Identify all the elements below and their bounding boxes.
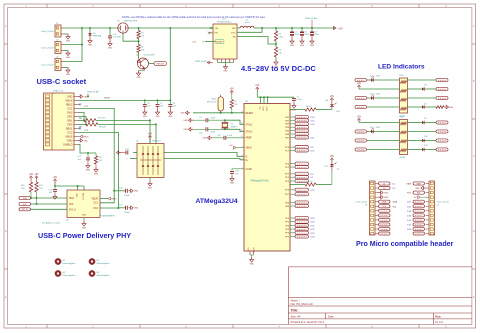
svg-text:GND: GND [300,45,305,47]
svg-text:FUSB302BMPX: FUSB302BMPX [100,215,116,217]
title ATMega32U4 [196,198,238,205]
connector J6 [355,181,378,235]
svg-text:CC1: CC1 [93,202,98,205]
net label row y134 [290,132,309,135]
svg-text:GND: GND [143,116,148,118]
svg-text:GND: GND [384,197,389,199]
ground U2 left [116,151,121,155]
no-connect SBU1 [78,127,81,129]
svg-text:VBUS: VBUS [111,199,117,201]
svg-text:4: 4 [242,158,243,160]
svg-text:GND: GND [134,191,139,193]
svg-text:6: 6 [242,167,243,169]
svg-text:GND: GND [66,74,71,76]
svg-text:SDA: SDA [393,201,398,204]
svg-text:SCL: SCL [69,203,74,206]
svg-text:SMF28A: SMF28A [93,35,102,38]
svg-text:VBUS: VBUS [246,148,253,150]
J6 row2 D0 [379,187,397,191]
U3 sleep wire [192,41,215,44]
svg-text:GND: GND [134,208,139,210]
label row1 left [355,78,371,81]
diode D10 [408,136,449,142]
svg-text:AREF: AREF [246,136,253,139]
svg-text:RESET: RESET [246,113,254,115]
node PWR_EN label [154,62,167,66]
label row3 left [355,96,371,99]
svg-text:GND: GND [88,44,93,46]
wire J2 pin1 to bus [64,44,82,46]
ground RN1 row4 [444,105,454,109]
net label row y218 [290,216,315,220]
wire input rail [82,27,213,29]
label SCL [19,202,31,205]
J6 row9 label [379,218,391,221]
svg-text:GND: GND [108,47,113,49]
svg-text:+5V: +5V [357,116,362,118]
svg-text:+5V: +5V [338,28,343,31]
net label row y137.4 [290,136,315,140]
net label row y147.1 [290,146,314,150]
vertical input bus [81,27,83,62]
label row3 right [408,96,449,99]
resistor R3 [274,28,284,44]
svg-text:D1: D1 [383,183,385,185]
svg-text:7: 7 [242,146,243,148]
label INT [19,208,31,211]
PWR_FLAG J5 [87,91,99,98]
ground R4 [274,60,279,68]
resistor R11 [21,174,34,198]
svg-text:1M: 1M [99,160,102,162]
ground C2 [300,39,305,47]
svg-text:XTAL2: XTAL2 [246,131,254,134]
svg-text:GND: GND [449,107,454,109]
svg-text:EN: EN [215,33,218,35]
svg-text:UVCC: UVCC [263,105,265,111]
capacitor C15 [48,185,57,194]
svg-text:+5V: +5V [34,174,39,176]
ESD array U2 [136,141,164,178]
J7 row2 GND [415,186,425,190]
svg-text:22uF: 22uF [304,34,309,36]
svg-text:KiCad E.D.A. kicad (5.1.5)-3: KiCad E.D.A. kicad (5.1.5)-3 [291,320,325,324]
svg-text:220pF: 220pF [124,212,130,214]
J7 row1 RAW [406,182,424,186]
svg-text:10k: 10k [39,188,42,190]
svg-text:Conn_01x12: Conn_01x12 [355,202,368,204]
title USB-C Power Delivery PHY [38,231,131,240]
transistor Q2 [136,55,155,70]
svg-text:GND: GND [155,116,160,118]
J6 row1 D1 [379,182,397,186]
svg-text:UCAP: UCAP [246,168,253,171]
PWR_FLAG output [305,17,317,28]
svg-text:10uH: 10uH [245,22,250,24]
svg-text:MountingHole: MountingHole [97,262,111,265]
label row4 left [355,105,400,108]
svg-text:DP2: DP2 [67,123,73,127]
svg-text:SCL: SCL [23,204,27,206]
title Pro Micro compatible header [356,240,454,248]
svg-text:10k: 10k [21,188,24,190]
svg-text:+5V: +5V [229,145,233,147]
svg-text:Conn_01x02: Conn_01x02 [41,31,54,33]
ground C17 [129,206,139,210]
svg-text:UGND: UGND [254,247,256,253]
capacitor C10 [193,127,225,134]
svg-text:NOTE: use 20V/5A e-marked cabl: NOTE: use 20V/5A e-marked cable for the … [122,15,266,19]
svg-text:PWR_EN: PWR_EN [156,63,164,65]
resistor R5 [230,88,238,112]
svg-text:File: PD_Micro.sch: File: PD_Micro.sch [291,302,314,306]
transistor Q1 [117,21,138,34]
svg-text:USB-C Power Delivery PHY: USB-C Power Delivery PHY [38,231,131,240]
svg-text:GND: GND [274,66,279,68]
svg-text:VOS: VOS [231,32,236,34]
U1 RX wire [290,109,305,111]
switch SW1 [207,95,224,113]
svg-text:GND: GND [183,129,188,131]
resistor R8 [78,123,106,129]
U1 ground [250,257,255,265]
vertical wire x170 rail to VBUS rail [169,28,171,100]
wire VBUS rail [78,98,171,102]
LED RX [325,100,340,113]
svg-text:16MHz: 16MHz [231,126,237,128]
ground C9 [183,118,193,122]
svg-text:SBU2: SBU2 [66,103,73,107]
svg-text:R7 22R: R7 22R [98,118,105,120]
diode D4 [408,104,445,109]
J7 row11 D16 [407,227,425,231]
connector J2 [41,39,64,53]
svg-text:Id: 1/1: Id: 1/1 [435,320,443,324]
mounting hole H1 [55,258,76,265]
svg-text:AVCC: AVCC [266,105,269,110]
wire U2 to D- long [164,153,244,157]
ground C5 [292,103,297,111]
net label row y150.4 [290,149,315,153]
svg-text:SDA: SDA [69,197,74,200]
svg-text:CC1: CC1 [67,107,73,111]
net label row y173.8 [290,172,314,176]
wire CC2 to PHY [78,130,119,209]
net label row y189.8 [290,188,315,192]
svg-text:GND: GND [230,182,235,184]
J5 GND arrow pin2 [78,139,88,143]
svg-text:DN2: DN2 [67,111,73,115]
U4 ground [82,218,87,230]
svg-text:220pF: 220pF [124,195,130,197]
ground C6 [143,110,148,118]
title USB-C socket [37,77,87,86]
wire U4 SDA [30,197,67,199]
svg-text:VDD: VDD [77,193,79,198]
svg-text:LED: LED [376,94,380,96]
svg-text:+5V: +5V [148,133,153,135]
svg-text:RX: RX [337,111,341,113]
J6 row6 SCL [379,205,398,209]
ground C8 [168,110,173,118]
svg-text:VCONN: VCONN [83,193,85,200]
svg-text:GND: GND [94,173,99,175]
wire Q1 gate [123,33,140,42]
svg-text:+5V: +5V [357,83,362,85]
capacitor C3 [310,28,320,39]
net label row y202.5 [290,201,309,204]
net label row y123.8 [290,122,315,126]
title 4.5~28V to 5V DC-DC [241,64,316,73]
svg-text:USB3.1 J5: USB3.1 J5 [53,91,64,93]
net label row y177.2 [290,176,314,180]
title block frame [288,267,472,325]
net label row y229.1 [290,228,315,232]
svg-text:DMP3017SFK: DMP3017SFK [124,21,138,23]
svg-text:GND: GND [415,188,420,190]
svg-text:GND: GND [66,40,71,42]
wire XTAL1 [225,120,244,124]
wire U4 INT [31,208,68,210]
ground C10 [183,128,193,132]
LED TX [324,162,339,185]
U2 +5V [148,133,153,143]
ground C4 [108,41,113,49]
J6 row3 GND [379,191,389,195]
label RN2 row4 left [355,148,400,151]
wire DN2 pair [78,112,85,121]
svg-text:Conn_01x02: Conn_01x02 [41,65,54,67]
U1 bottom GND pins [248,247,256,257]
wire DP1 pair [78,116,87,125]
svg-text:CC2: CC2 [93,207,98,210]
svg-text:+5V: +5V [330,156,335,158]
note text [122,15,266,19]
ground C13 [230,176,235,184]
wire DP to ESD [98,123,157,143]
net label row y221.7 [290,220,315,224]
resistor network RN2 [400,117,408,159]
net label row y127.2 [290,126,309,129]
resistor R10 [305,181,332,186]
J6 row10 label [379,223,391,226]
svg-text:4.5~28V to 5V DC-DC: 4.5~28V to 5V DC-DC [241,64,316,73]
resistor R4 [274,44,283,60]
svg-text:16: 16 [241,130,243,132]
svg-text:LED: LED [376,127,380,129]
svg-text:22pF: 22pF [211,118,216,120]
resistor R1 [137,28,145,41]
svg-text:VBUS: VBUS [104,98,110,100]
J6 row8 label [379,214,391,217]
J7 row3 RST [407,191,425,195]
net label row y194.2 [290,193,309,196]
wire DN to ESD [96,119,151,143]
connector J7 [426,181,450,235]
svg-text:VBUS: VBUS [65,99,72,103]
svg-text:0.1uF: 0.1uF [297,99,303,101]
inductor L1 [237,20,257,29]
svg-text:+5V: +5V [230,88,235,90]
ground C7 [155,110,160,118]
LED D8 [370,127,400,133]
title LED Indicators [378,63,425,70]
svg-text:GND: GND [82,215,87,217]
diode D9 [408,118,449,124]
J7 row12 label [413,232,425,235]
svg-text:SW_Push: SW_Push [207,102,217,104]
J7 row4 VCC [413,196,426,200]
svg-text:+5V: +5V [330,96,335,98]
+5V output arrow [333,26,342,30]
svg-text:GND: GND [136,77,141,79]
crystal Y1 [221,119,236,130]
J7 row9 D15 [407,218,425,222]
resistor R7 [78,118,105,123]
svg-text:0.1uF: 0.1uF [227,135,233,137]
U3 ground [223,63,228,73]
U1 +5V top [255,85,260,91]
U3 pin names [215,28,237,43]
svg-text:GND: GND [67,95,73,99]
J6 row7 label [379,209,391,212]
wire U4 VBUS [100,197,117,201]
svg-text:R10 1k: R10 1k [306,181,312,183]
wire U3 EN stub [208,32,213,34]
net label row y225.4 [290,224,315,228]
svg-text:GND: GND [67,139,73,143]
capacitor C5 [268,97,302,104]
svg-text:PWR_FLAG: PWR_FLAG [87,91,99,94]
net label row y163.7 [290,162,309,165]
net label row y120.4 [290,119,315,123]
net label row y117 [290,115,315,119]
J6 row4 GND [379,195,389,199]
svg-text:LED: LED [376,76,380,78]
svg-text:13: 13 [241,111,243,113]
svg-text:VBUS: VBUS [91,198,98,201]
svg-text:+5V: +5V [53,177,58,179]
U1 top power pins [257,91,268,111]
wire Q2 collector [149,63,155,65]
wire XTAL2 [225,129,244,131]
svg-text:17: 17 [241,123,243,125]
svg-text:VBUS: VBUS [65,135,72,139]
+5V RN1 row2 [357,83,362,89]
capacitor C17 [118,205,130,214]
capacitor C16 [114,188,130,197]
U2 ground [148,178,153,190]
svg-text:1uF 50V: 1uF 50V [113,37,121,39]
TX +5V [330,156,335,162]
svg-text:GND: GND [83,140,88,142]
diode D5 [88,28,101,38]
J5 GND arrow pin1 [78,95,88,99]
capacitor C4 [108,28,121,41]
resistor network RN1 [400,75,408,117]
resistor R9 [94,153,102,167]
J6 row11 label [379,227,391,230]
ground J2 pin2 [64,51,71,59]
U4 I2C note [42,222,61,225]
svg-text:GND: GND [82,227,87,229]
J7 row6 D20 [407,205,425,209]
svg-text:Date:: Date: [328,315,335,319]
label row1 right [408,78,449,81]
svg-text:USB-C socket: USB-C socket [37,77,87,86]
svg-text:Size: A4: Size: A4 [291,315,301,319]
svg-text:VIN: VIN [215,28,219,30]
capacitor C12 [77,153,90,163]
J6 row5 SDA [379,200,398,204]
mounting hole H2 [89,258,110,265]
wire U3 FB [237,37,277,45]
svg-text:R6 1k: R6 1k [306,106,311,108]
label RN2 row2 right [408,130,449,133]
svg-text:TPS54231DDC: TPS54231DDC [216,21,231,23]
wire RN2 row1 [359,122,400,124]
svg-text:42: 42 [241,136,243,138]
svg-text:D0: D0 [383,188,385,190]
mounting hole H3 [55,270,76,277]
diode D12 [408,145,449,151]
svg-text:GND: GND [86,169,91,171]
svg-text:MountingHole: MountingHole [63,262,77,265]
capacitor C6 [143,100,151,109]
connector J1 [41,23,64,37]
svg-text:+5V: +5V [29,174,34,176]
svg-text:Sheet: /: Sheet: / [291,298,301,302]
wire RN1 row2 [359,88,400,90]
ground R9 [94,167,99,175]
VBUS arrow pin B4 [78,135,89,139]
net label row y130.6 [290,129,309,132]
svg-text:ATMega32U4-MU: ATMega32U4-MU [250,180,269,183]
LED D7 [370,94,400,100]
svg-text:LED Indicators: LED Indicators [378,63,425,70]
svg-text:GND: GND [168,116,173,118]
J6 row12 label [379,232,391,235]
label SDA [19,196,31,199]
J7 row5 D21 [407,200,425,204]
svg-text:MountingHole: MountingHole [63,274,77,277]
svg-text:SRV05-4: SRV05-4 [152,141,161,143]
svg-text:Rev:: Rev: [435,315,441,319]
capacitor C8 [168,100,176,109]
ground C16 [129,189,139,193]
svg-text:GND: GND [183,120,188,122]
capacitor C11 [212,135,244,140]
capacitor C1 [290,28,300,39]
ground D5 [88,38,93,46]
svg-text:+5V: +5V [192,42,196,44]
svg-text:D-: D- [246,156,249,158]
svg-text:3: 3 [242,155,243,157]
svg-text:GND: GND [250,263,255,265]
LED D2 [370,76,400,82]
svg-text:INT_A: INT_A [69,209,76,212]
svg-text:22uF: 22uF [294,34,299,36]
ground C15 [53,194,57,199]
svg-text:MountingHole: MountingHole [97,274,111,277]
ground SW1 [180,111,190,115]
J7 row10 D14 [407,223,425,227]
svg-text:SCL: SCL [383,206,387,208]
wire U2 to D+ long [164,159,244,160]
+5V RN2 row1 [357,116,362,122]
U1 right pin names [285,117,290,238]
svg-text:PWR_FLAG: PWR_FLAG [305,17,317,20]
